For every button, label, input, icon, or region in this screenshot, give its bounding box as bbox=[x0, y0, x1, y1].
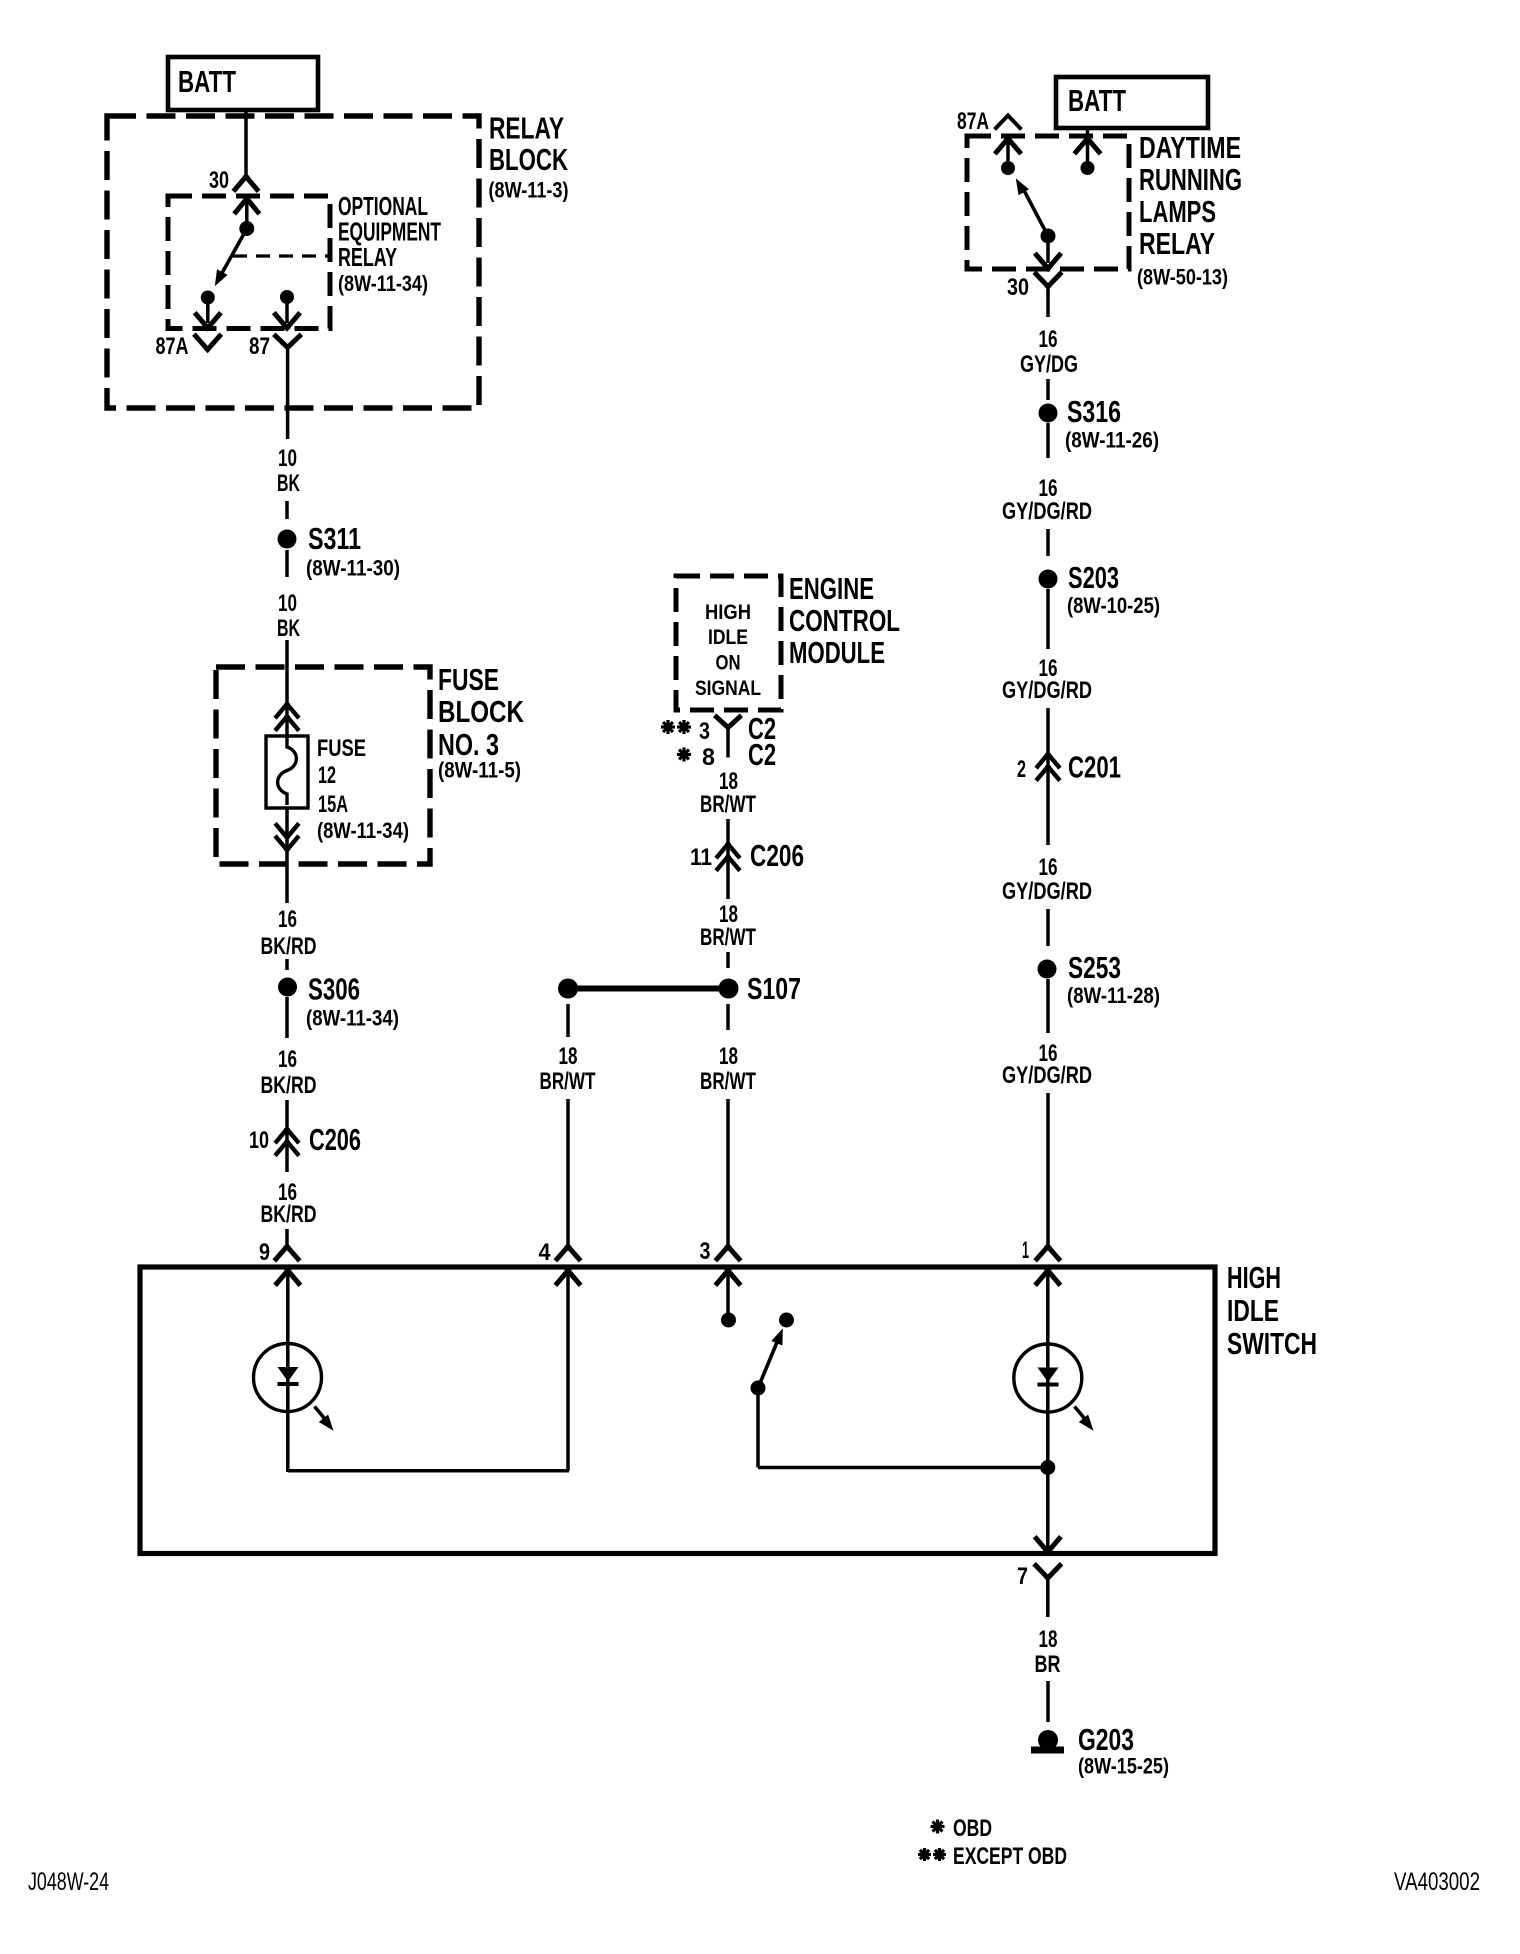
svg-text:16: 16 bbox=[278, 1046, 297, 1073]
svg-text:C2: C2 bbox=[748, 737, 776, 772]
wire label 18 BR/WT (ECM out) bbox=[700, 768, 756, 818]
junction node left of S107 bbox=[558, 979, 578, 999]
junction node on LED2 wire bbox=[1040, 1460, 1055, 1475]
wire through connector C201 bbox=[1046, 708, 1050, 845]
wire segment below S107 bbox=[726, 1004, 730, 1030]
svg-text:BK: BK bbox=[277, 470, 300, 497]
svg-text:RELAY: RELAY bbox=[338, 242, 397, 272]
wire pivot to junction bbox=[758, 1394, 1048, 1468]
svg-text:S316: S316 bbox=[1067, 394, 1121, 429]
switch contact node (pin 3) bbox=[721, 1313, 736, 1328]
DRL relay switch arm bbox=[1016, 178, 1048, 236]
wire label 10 BK (lower) bbox=[277, 590, 300, 642]
wire label 18 BR/WT (below C206) bbox=[700, 901, 756, 951]
wire LED1 to pin 4 (internal) bbox=[288, 1271, 569, 1471]
pin 3 terminal arrow (inside) bbox=[717, 1271, 739, 1314]
svg-text:GY/DG: GY/DG bbox=[1020, 351, 1078, 378]
relay contact 87 node bbox=[280, 290, 294, 304]
DRL common terminal arrow (under BATT) bbox=[1076, 139, 1099, 153]
svg-text:S107: S107 bbox=[747, 971, 801, 1006]
wire label 16 GY/DG/RD (3) bbox=[1002, 854, 1092, 905]
svg-text:(8W-11-3): (8W-11-3) bbox=[489, 178, 569, 203]
wire through connector C206 (left) bbox=[285, 1100, 289, 1172]
svg-text:87A: 87A bbox=[957, 108, 989, 135]
svg-text:J048W-24: J048W-24 bbox=[28, 1868, 109, 1896]
fuse block no.3 dashed box bbox=[216, 667, 430, 864]
svg-text:BR/WT: BR/WT bbox=[700, 1068, 756, 1095]
label OPTIONAL EQUIPMENT RELAY bbox=[338, 191, 441, 296]
fuse block title bbox=[438, 662, 524, 783]
wire label 16 GY/DG/RD (4) bbox=[1002, 1040, 1092, 1089]
svg-text:3: 3 bbox=[700, 1238, 711, 1265]
svg-text:MODULE: MODULE bbox=[789, 635, 885, 670]
wire label 16 GY/DG/RD (2) bbox=[1002, 655, 1092, 704]
high idle switch box bbox=[140, 1267, 1215, 1554]
ECM title bbox=[789, 571, 900, 670]
legend OBD bbox=[931, 1815, 993, 1842]
svg-text:(8W-11-34): (8W-11-34) bbox=[338, 271, 428, 296]
svg-text:DAYTIME: DAYTIME bbox=[1139, 130, 1241, 165]
svg-text:(8W-10-25): (8W-10-25) bbox=[1067, 593, 1160, 618]
svg-text:IDLE: IDLE bbox=[1227, 1293, 1279, 1328]
svg-text:BK/RD: BK/RD bbox=[261, 933, 317, 960]
svg-text:CONTROL: CONTROL bbox=[789, 603, 900, 638]
svg-text:18: 18 bbox=[559, 1043, 578, 1070]
wire label 18 BR/WT (left branch) bbox=[540, 1043, 596, 1095]
wire segment below S306 bbox=[285, 997, 289, 1038]
svg-text:(8W-11-5): (8W-11-5) bbox=[438, 758, 521, 783]
splice S203 bbox=[1039, 560, 1161, 618]
svg-text:15A: 15A bbox=[318, 791, 348, 818]
pin 87A stub connector (DRL) bbox=[957, 108, 1020, 135]
splice S311 bbox=[278, 521, 401, 581]
wire segment above S253 bbox=[1046, 909, 1050, 946]
svg-text:BK/RD: BK/RD bbox=[261, 1072, 317, 1099]
svg-text:30: 30 bbox=[1007, 274, 1029, 301]
wire segment below S253 bbox=[1046, 979, 1050, 1033]
wire label 16 BK/RD (3) bbox=[261, 1179, 317, 1228]
svg-text:BK/RD: BK/RD bbox=[261, 1201, 317, 1228]
LED indicator lamp 1 (left) bbox=[254, 1343, 322, 1472]
svg-text:87A: 87A bbox=[156, 333, 189, 360]
svg-text:S311: S311 bbox=[308, 521, 361, 556]
svg-text:1: 1 bbox=[1022, 1237, 1029, 1264]
svg-text:ON: ON bbox=[716, 652, 741, 675]
relay block dashed box bbox=[107, 116, 479, 408]
svg-text:VA403002: VA403002 bbox=[1394, 1868, 1480, 1896]
pin 1 terminal arrow (inside) bbox=[1037, 1271, 1059, 1345]
svg-text:10: 10 bbox=[278, 590, 297, 617]
wire BATT to DRL relay bbox=[1086, 128, 1090, 162]
svg-text:C206: C206 bbox=[309, 1122, 361, 1157]
svg-text:RELAY: RELAY bbox=[489, 111, 564, 146]
svg-text:BR/WT: BR/WT bbox=[540, 1068, 596, 1095]
LED 1 illumination arrow bbox=[315, 1407, 334, 1431]
svg-text:2: 2 bbox=[1017, 756, 1026, 783]
svg-text:9: 9 bbox=[259, 1239, 270, 1266]
pin 9 terminal arrow (inside) bbox=[277, 1271, 299, 1344]
switch pin 1 connector bbox=[1022, 1237, 1059, 1264]
connector C206 pin 11 bbox=[690, 838, 804, 873]
svg-text:G203: G203 bbox=[1078, 1722, 1134, 1757]
svg-text:10: 10 bbox=[278, 445, 297, 472]
LED indicator lamp 2 (right) bbox=[1014, 1344, 1082, 1556]
wire label 10 BK (upper) bbox=[277, 445, 300, 497]
svg-text:C201: C201 bbox=[1068, 750, 1121, 785]
switch pin 7 connector bbox=[1017, 1563, 1060, 1617]
wire segment above S306 bbox=[285, 959, 289, 970]
relay coil linkage dashed line bbox=[233, 254, 329, 257]
svg-text:FUSE: FUSE bbox=[317, 735, 366, 762]
svg-text:(8W-50-13): (8W-50-13) bbox=[1137, 265, 1228, 290]
svg-text:(8W-11-30): (8W-11-30) bbox=[306, 556, 400, 581]
pin 87 connector bbox=[249, 333, 300, 439]
footer sheet code J048W-24 bbox=[28, 1868, 109, 1896]
svg-text:(8W-11-26): (8W-11-26) bbox=[1065, 428, 1159, 453]
pin 87A stub connector bbox=[156, 333, 220, 360]
DRL relay title bbox=[1137, 130, 1242, 290]
svg-text:GY/DG/RD: GY/DG/RD bbox=[1002, 677, 1092, 704]
fuse F12 15A bbox=[266, 735, 409, 843]
connector C206 pin 10 bbox=[249, 1122, 361, 1157]
svg-text:(8W-11-34): (8W-11-34) bbox=[317, 818, 409, 843]
switch pin 9 connector bbox=[259, 1239, 298, 1266]
wire label 16 BK/RD (2) bbox=[261, 1046, 317, 1099]
svg-text:BR: BR bbox=[1035, 1651, 1061, 1678]
svg-text:BLOCK: BLOCK bbox=[489, 142, 568, 177]
wire S107 branch bus bbox=[568, 986, 728, 992]
wire segment below S316 bbox=[1046, 423, 1050, 458]
wire segment above S107 bbox=[726, 952, 730, 968]
splice S306 bbox=[278, 972, 399, 1031]
svg-text:GY/DG/RD: GY/DG/RD bbox=[1002, 1062, 1092, 1089]
wire label 16 GY/DG/RD (1) bbox=[1002, 475, 1092, 525]
connector C201 pin 2 bbox=[1017, 750, 1121, 785]
svg-text:3: 3 bbox=[699, 718, 710, 745]
switch arm (high idle switch) bbox=[758, 1328, 783, 1388]
pin 4 terminal arrow (inside) bbox=[557, 1271, 579, 1284]
svg-text:S306: S306 bbox=[308, 972, 360, 1007]
svg-text:RUNNING: RUNNING bbox=[1139, 162, 1242, 197]
svg-text:16: 16 bbox=[1039, 854, 1058, 881]
optional equipment relay U-OER dashed box bbox=[168, 196, 330, 329]
wire label 16 BK/RD (1) bbox=[261, 906, 317, 960]
svg-text:(8W-11-28): (8W-11-28) bbox=[1067, 983, 1160, 1008]
svg-text:HIGH: HIGH bbox=[1227, 1260, 1281, 1295]
wire through connector C206 (middle) bbox=[726, 819, 730, 899]
svg-text:(8W-11-34): (8W-11-34) bbox=[306, 1006, 399, 1031]
relay common contact node bbox=[239, 221, 254, 236]
wire label 18 BR bbox=[1035, 1626, 1061, 1678]
wire segment above S203 bbox=[1046, 529, 1050, 556]
splice S316 bbox=[1039, 394, 1160, 453]
ground G203 bbox=[1031, 1722, 1169, 1779]
relay common terminal arrow (pin 30 inside) bbox=[236, 199, 258, 223]
svg-text:18: 18 bbox=[719, 1043, 738, 1070]
relay 87 terminal arrow bbox=[276, 297, 299, 328]
wire to switch pin 3 bbox=[726, 1099, 730, 1247]
node RELAY BLOCK title bbox=[489, 111, 569, 203]
svg-text:4: 4 bbox=[539, 1239, 552, 1266]
svg-text:BATT: BATT bbox=[178, 64, 236, 99]
DRL pin 30 terminal arrow bbox=[1037, 236, 1060, 269]
svg-text:8: 8 bbox=[702, 744, 715, 771]
switch contact node (open side) bbox=[779, 1313, 794, 1328]
svg-text:OBD: OBD bbox=[953, 1815, 992, 1842]
svg-text:EXCEPT OBD: EXCEPT OBD bbox=[953, 1843, 1067, 1870]
svg-text:FUSE: FUSE bbox=[438, 662, 499, 697]
pin 30 connector (relay block) bbox=[209, 167, 257, 194]
wire to ground G203 bbox=[1046, 1681, 1050, 1722]
splice S253 bbox=[1038, 950, 1161, 1008]
high idle switch title bbox=[1227, 1260, 1317, 1361]
DRL common contact node bbox=[1081, 161, 1095, 175]
pin 7 terminal arrow (bottom, inside) bbox=[1036, 1539, 1059, 1553]
wire label 18 BR/WT (right branch) bbox=[700, 1043, 756, 1095]
wire to switch pin 4 bbox=[566, 1099, 570, 1247]
switch pin 3 connector bbox=[700, 1238, 740, 1265]
wire to switch pin 9 bbox=[285, 1229, 289, 1247]
svg-text:16: 16 bbox=[278, 906, 297, 933]
battery feed BATT (right) bbox=[1056, 77, 1208, 128]
svg-text:C206: C206 bbox=[750, 838, 804, 873]
svg-text:18: 18 bbox=[1039, 1626, 1058, 1653]
svg-text:BR/WT: BR/WT bbox=[700, 791, 756, 818]
battery feed BATT (left) bbox=[168, 57, 318, 110]
wire segment below S311 bbox=[285, 550, 289, 577]
wire segment above S316 bbox=[1046, 379, 1050, 400]
svg-text:87: 87 bbox=[249, 333, 270, 360]
svg-text:S253: S253 bbox=[1068, 950, 1121, 985]
splice S107 bbox=[719, 971, 802, 1006]
DRL pin 30 contact node bbox=[1041, 229, 1056, 244]
svg-text:16: 16 bbox=[1039, 326, 1058, 353]
wire to switch pin 1 bbox=[1046, 1093, 1050, 1247]
svg-text:IDLE: IDLE bbox=[708, 626, 748, 649]
relay switch arm (to 87A) bbox=[215, 231, 246, 286]
DRL contact 87A node bbox=[1001, 161, 1015, 175]
svg-text:7: 7 bbox=[1017, 1563, 1028, 1590]
LED 2 illumination arrow bbox=[1075, 1407, 1094, 1431]
footer drawing code VA403002 bbox=[1394, 1868, 1480, 1896]
svg-text:LAMPS: LAMPS bbox=[1139, 194, 1216, 229]
svg-text:11: 11 bbox=[690, 844, 712, 871]
wire below fuse bbox=[285, 808, 289, 903]
legend EXCEPT OBD bbox=[918, 1843, 1067, 1870]
switch pivot node bbox=[751, 1381, 766, 1396]
daytime running lamps relay dashed box bbox=[967, 136, 1129, 269]
svg-text:ENGINE: ENGINE bbox=[789, 571, 874, 606]
wire label 16 GY/DG bbox=[1020, 326, 1078, 378]
svg-text:SWITCH: SWITCH bbox=[1227, 1326, 1317, 1361]
switch pin 4 connector bbox=[539, 1239, 580, 1266]
wire segment below left junction bbox=[566, 1004, 570, 1037]
svg-text:30: 30 bbox=[209, 167, 229, 194]
wire into fuse block bbox=[285, 640, 289, 738]
svg-text:GY/DG/RD: GY/DG/RD bbox=[1002, 878, 1092, 905]
wire segment above S311 bbox=[285, 501, 289, 519]
svg-text:SIGNAL: SIGNAL bbox=[695, 677, 761, 700]
wire BATT to relay pin 30 bbox=[244, 110, 248, 177]
engine control module dashed box bbox=[676, 576, 781, 710]
svg-text:12: 12 bbox=[318, 762, 336, 789]
svg-text:S203: S203 bbox=[1068, 560, 1119, 595]
svg-text:BK: BK bbox=[277, 615, 300, 642]
svg-text:HIGH: HIGH bbox=[705, 601, 751, 624]
svg-text:RELAY: RELAY bbox=[1139, 226, 1215, 261]
svg-text:10: 10 bbox=[249, 1127, 269, 1154]
svg-text:BLOCK: BLOCK bbox=[438, 694, 524, 729]
svg-text:BR/WT: BR/WT bbox=[700, 924, 756, 951]
relay 87A terminal arrow bbox=[196, 298, 219, 329]
connector into fuse block (double chevron) bbox=[277, 704, 298, 729]
relay contact 87A node bbox=[201, 291, 215, 305]
svg-text:GY/DG/RD: GY/DG/RD bbox=[1002, 498, 1092, 525]
svg-text:(8W-15-25): (8W-15-25) bbox=[1078, 1754, 1169, 1779]
svg-text:BATT: BATT bbox=[1068, 83, 1126, 118]
pin 30 connector (DRL) bbox=[1007, 274, 1060, 317]
wire segment below S203 bbox=[1046, 589, 1050, 649]
connector C2 pins 3/8 bbox=[661, 711, 776, 772]
DRL 87A terminal arrow bbox=[997, 139, 1020, 162]
connector out of fuse block (double chevron down) bbox=[277, 825, 298, 850]
